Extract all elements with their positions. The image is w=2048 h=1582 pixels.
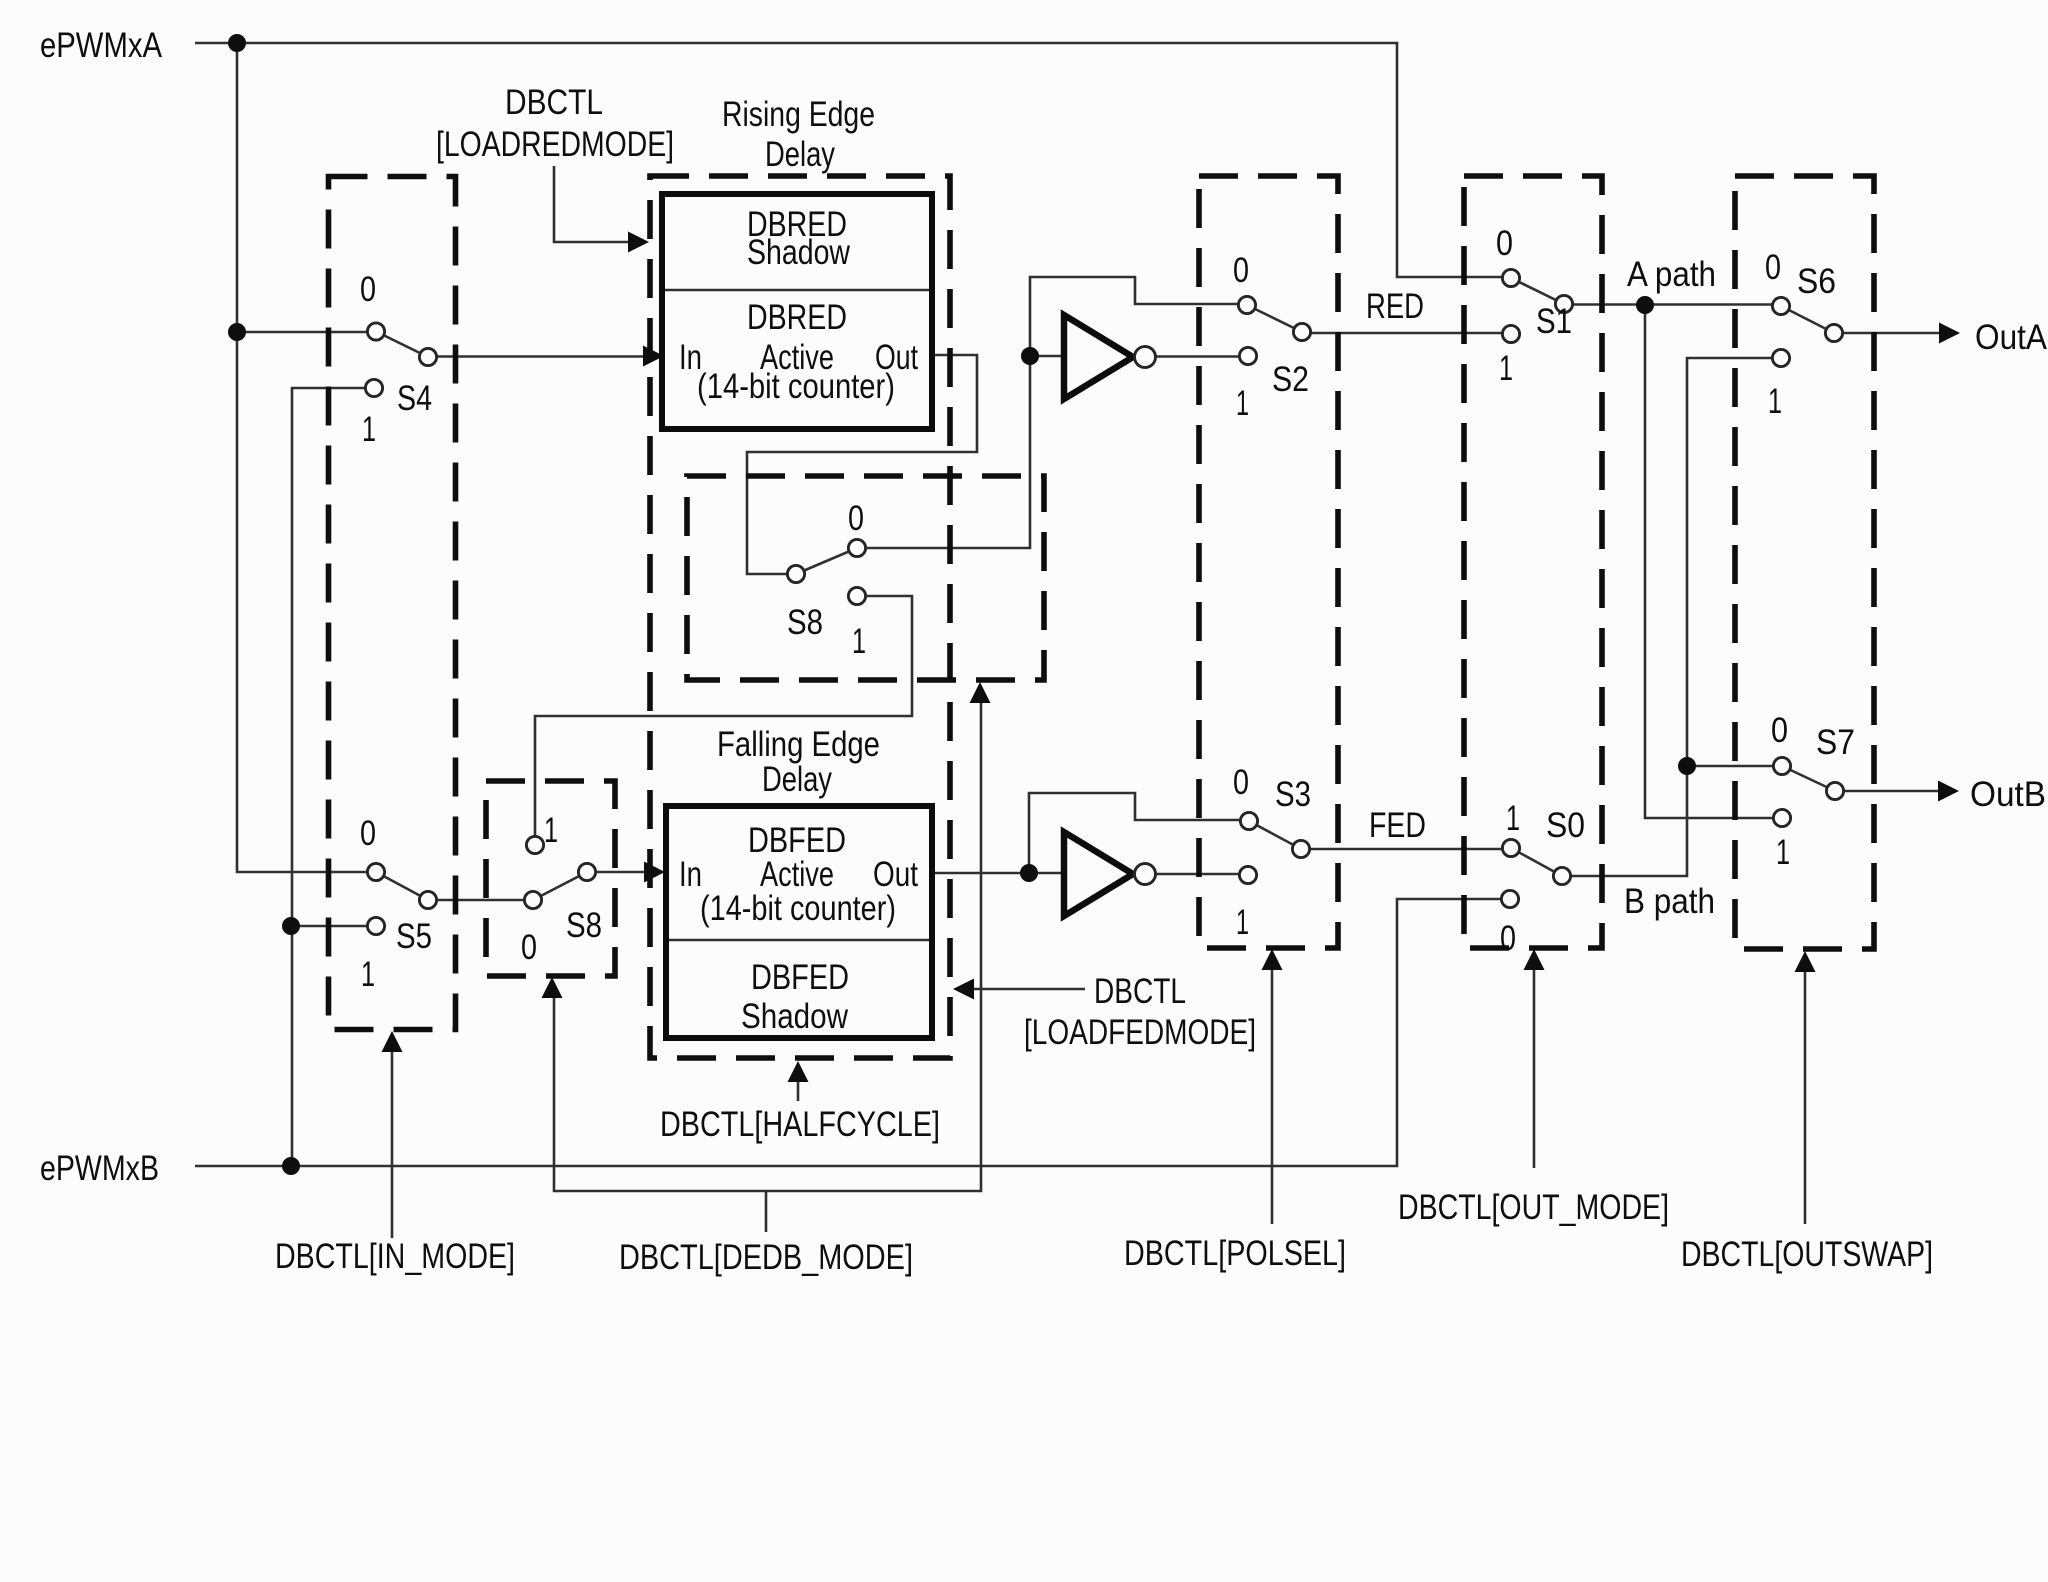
svg-text:(14-bit counter): (14-bit counter): [700, 889, 896, 928]
arrowhead DBCTL[OUTSWAP]: [1795, 951, 1816, 972]
svg-text:OutA: OutA: [1975, 318, 2048, 357]
svg-text:Shadow: Shadow: [747, 233, 851, 272]
svg-text:S4: S4: [397, 379, 432, 418]
wire RED from S2 common to S1 contact 1: [1302, 332, 1511, 335]
svg-text:[LOADREDMODE]: [LOADREDMODE]: [436, 125, 674, 164]
arrowhead OutA: [1939, 323, 1960, 344]
switch S5: [360, 814, 437, 994]
arrowhead DBCTL[DEDB_MODE] left: [542, 977, 563, 998]
wire S8 upper contact 0 to RED node and S2 contact 0: [857, 277, 1247, 548]
svg-text:S3: S3: [1275, 775, 1311, 814]
svg-text:0: 0: [521, 928, 537, 967]
svg-text:DBCTL[HALFCYCLE]: DBCTL[HALFCYCLE]: [660, 1105, 940, 1144]
svg-text:S2: S2: [1272, 360, 1309, 399]
arrowhead DBCTL[DEDB_MODE] right: [970, 682, 991, 703]
wire FED from S3 common to S0 contact 1: [1301, 848, 1511, 851]
svg-text:0: 0: [1765, 248, 1781, 287]
junction RED node at inverter U1 input: [1021, 347, 1039, 365]
wire A path branch down to S7 contact 1: [1645, 305, 1782, 818]
label Falling Edge Delay: [717, 725, 880, 799]
svg-text:ePWMxB: ePWMxB: [40, 1149, 159, 1188]
svg-text:Shadow: Shadow: [741, 997, 849, 1036]
label DBCTL[LOADREDMODE]: [436, 83, 674, 164]
svg-text:DBRED: DBRED: [747, 298, 847, 337]
S8 lower DEDB switch box: [486, 781, 615, 976]
svg-text:DBCTL[OUTSWAP]: DBCTL[OUTSWAP]: [1681, 1235, 1933, 1274]
svg-text:DBFED: DBFED: [751, 958, 849, 997]
switch S7: [1771, 711, 1855, 872]
wire B path riser from S0 common to S6 contact 1: [1562, 358, 1781, 876]
wire A path from S1 common to S6 contact 0: [1564, 303, 1781, 306]
svg-text:1: 1: [362, 410, 376, 449]
svg-text:B path: B path: [1624, 882, 1715, 921]
wire DBCTL[LOADFEDMODE] control: [974, 988, 1085, 991]
inverter U1: [1064, 315, 1156, 399]
svg-text:0: 0: [360, 270, 376, 309]
svg-text:(14-bit counter): (14-bit counter): [697, 367, 895, 406]
svg-text:S7: S7: [1816, 723, 1855, 762]
wire ePWMxA left riser to S4/S5: [237, 43, 376, 872]
wire DBCTL[OUTSWAP] stem: [1804, 972, 1807, 1224]
switch S4: [360, 270, 437, 449]
wire S7 common to OutB: [1835, 790, 1938, 793]
junction S5 branch: [282, 917, 300, 935]
junction A path node: [1636, 296, 1654, 314]
switch S2: [1233, 251, 1311, 423]
svg-text:S6: S6: [1797, 262, 1836, 301]
svg-text:1: 1: [1236, 903, 1249, 942]
arrowhead DBCTL[IN_MODE]: [382, 1031, 403, 1052]
wire DBCTL[DEDB_MODE] control: [554, 703, 981, 1232]
svg-text:S5: S5: [396, 917, 432, 956]
svg-text:A path: A path: [1627, 255, 1716, 294]
junction ePWMxA top: [228, 34, 246, 52]
wire B path branch to S7 contact 0: [1687, 765, 1782, 768]
inverter U2: [1064, 832, 1156, 916]
junction B path node: [1678, 757, 1696, 775]
wire inverter U1 output to S2 contact 1: [1155, 355, 1248, 358]
svg-text:0: 0: [1233, 251, 1249, 290]
svg-text:Rising Edge: Rising Edge: [722, 95, 875, 134]
wire DBRED Out to S8 upper common: [747, 355, 977, 574]
svg-text:1: 1: [1776, 833, 1790, 872]
wire S8 lower common to DBFED In: [587, 871, 646, 874]
svg-text:1: 1: [1506, 799, 1520, 838]
svg-text:1: 1: [1768, 382, 1782, 421]
wire S5 common to S8 lower contact 0: [428, 899, 533, 902]
arrowhead DBCTL[OUT_MODE]: [1524, 949, 1545, 970]
wire S4 common to DBRED In: [428, 355, 643, 358]
block DBRED counter: [662, 194, 932, 429]
arrowhead DBCTL[LOADREDMODE]: [628, 232, 649, 253]
svg-text:S0: S0: [1546, 806, 1585, 845]
wire ePWMxA top rail to S1 contact 0: [195, 43, 1511, 277]
block DBFED counter: [666, 806, 932, 1038]
junction ePWMxB: [282, 1157, 300, 1175]
svg-text:In: In: [679, 855, 702, 894]
DBCTL[OUTSWAP] switch group box: [1735, 176, 1874, 949]
wire branch to S5 contact 1: [291, 925, 376, 928]
junction FED node at inverter U2 input: [1020, 864, 1038, 882]
svg-text:S8: S8: [787, 603, 823, 642]
arrowhead OutB: [1938, 781, 1959, 802]
svg-text:FED: FED: [1369, 806, 1426, 845]
wire DBCTL[POLSEL] stem: [1271, 970, 1274, 1224]
switch S1: [1496, 224, 1573, 388]
DBCTL[POLSEL] switch group box: [1199, 176, 1338, 948]
wire S8 upper contact 1 to S8 lower contact 1: [535, 596, 912, 845]
svg-text:DBCTL[DEDB_MODE]: DBCTL[DEDB_MODE]: [619, 1238, 913, 1277]
svg-text:1: 1: [361, 955, 375, 994]
svg-text:Delay: Delay: [762, 760, 832, 799]
DBCTL[OUT_MODE] switch group box: [1464, 176, 1602, 948]
svg-text:1: 1: [852, 622, 866, 661]
wire branch to S4 contact 0: [237, 331, 376, 334]
S8 upper switch box: [687, 476, 1044, 680]
DBCTL[IN_MODE] switch group box: [329, 177, 456, 1030]
wire DBCTL[IN_MODE] stem: [391, 1052, 394, 1238]
svg-text:0: 0: [1771, 711, 1788, 750]
svg-text:Falling Edge: Falling Edge: [717, 725, 880, 764]
label DBCTL[LOADFEDMODE]: [1024, 972, 1256, 1052]
svg-text:1: 1: [1499, 349, 1513, 388]
wire DBCTL[HALFCYCLE] stem: [797, 1082, 800, 1101]
svg-text:0: 0: [1233, 763, 1249, 802]
wire S6 common to OutA: [1834, 332, 1939, 335]
junction S4 branch: [228, 323, 246, 341]
wire ePWMxB bottom rail to S0 contact 0: [195, 899, 1510, 1166]
svg-text:[LOADFEDMODE]: [LOADFEDMODE]: [1024, 1013, 1256, 1052]
svg-text:0: 0: [1496, 224, 1513, 263]
arrowhead DBCTL[POLSEL]: [1262, 949, 1283, 970]
switch S0: [1500, 799, 1585, 958]
svg-text:ePWMxA: ePWMxA: [40, 26, 163, 65]
svg-text:RED: RED: [1366, 287, 1424, 326]
wire DBCTL[OUT_MODE] stem: [1533, 970, 1536, 1168]
wire inverter U2 output to S3 contact 1: [1155, 873, 1248, 876]
rising/falling edge delay module box: [650, 176, 950, 1058]
switch S8 upper: [787, 499, 866, 661]
switch S6: [1765, 248, 1843, 421]
arrowhead DBCTL[HALFCYCLE]: [788, 1061, 809, 1082]
svg-text:DBCTL: DBCTL: [1094, 972, 1186, 1011]
svg-text:DBCTL: DBCTL: [505, 83, 603, 122]
wire DBCTL[LOADREDMODE] control: [554, 166, 628, 242]
label Rising Edge Delay: [722, 95, 875, 174]
switch S3: [1233, 763, 1311, 942]
wire S4 contact 1 to ePWMxB riser: [292, 388, 376, 1166]
svg-text:DBCTL[IN_MODE]: DBCTL[IN_MODE]: [275, 1237, 515, 1276]
arrowhead into DBRED In pin: [643, 346, 664, 367]
svg-text:S8: S8: [566, 906, 602, 945]
svg-text:OutB: OutB: [1970, 775, 2046, 814]
svg-text:0: 0: [848, 499, 864, 538]
svg-text:DBCTL[POLSEL]: DBCTL[POLSEL]: [1124, 1234, 1346, 1273]
svg-text:0: 0: [1500, 919, 1516, 958]
arrowhead into DBFED In pin: [644, 862, 665, 883]
wire FED node step to S3 contact 0: [1029, 793, 1249, 873]
wire DBFED Out to inverter U2 input: [932, 872, 1064, 875]
svg-text:0: 0: [360, 814, 376, 853]
svg-text:1: 1: [1236, 384, 1249, 423]
svg-text:DBCTL[OUT_MODE]: DBCTL[OUT_MODE]: [1398, 1188, 1669, 1227]
wire RED node to inverter U1 input: [1030, 355, 1064, 358]
switch S8 lower: [521, 811, 602, 967]
svg-text:Delay: Delay: [765, 135, 835, 174]
svg-text:1: 1: [544, 811, 558, 850]
arrowhead DBCTL[LOADFEDMODE]: [953, 979, 974, 1000]
svg-text:S1: S1: [1536, 302, 1572, 341]
